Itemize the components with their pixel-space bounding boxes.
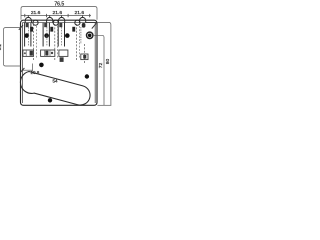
mounting hole donut xyxy=(87,32,93,38)
right extension mid (72) xyxy=(93,35,104,105)
tick right top xyxy=(92,23,96,28)
screw blob 1 xyxy=(30,27,33,32)
screw blob 3 xyxy=(72,27,75,32)
screw shank dark 2 xyxy=(44,23,47,27)
svg-text:80: 80 xyxy=(105,59,111,65)
cylinder 1 xyxy=(24,23,26,47)
mount dot 3 xyxy=(65,33,70,38)
dimension 76.5 line xyxy=(21,7,97,20)
string line pair 2 xyxy=(54,24,56,61)
string line pair 1 xyxy=(33,24,35,61)
inner dashed 1 xyxy=(27,27,29,46)
mount dot 1 xyxy=(25,33,30,38)
cap 2 xyxy=(47,17,53,22)
svg-text:10.8: 10.8 xyxy=(30,70,39,75)
inner dashed 2 xyxy=(46,27,48,46)
cap 1 xyxy=(25,17,31,22)
svg-text:76.5: 76.5 xyxy=(54,2,64,8)
screw head dark 4 xyxy=(82,23,86,28)
left tick top xyxy=(19,25,23,30)
dimension ticks xyxy=(24,14,26,17)
svg-text:21.6: 21.6 xyxy=(53,10,63,16)
foot 1 xyxy=(23,50,34,56)
string hole circle 2 xyxy=(53,20,58,25)
saddle group 4 xyxy=(80,17,89,63)
string line 4 xyxy=(84,44,86,63)
screw shank dark 1 xyxy=(26,23,29,27)
dimension 10.8 line xyxy=(22,69,33,71)
string line pair 3 xyxy=(76,24,78,61)
screw dot mid-left xyxy=(39,63,44,68)
right extension top (80) xyxy=(97,23,111,106)
svg-text:8.2: 8.2 xyxy=(0,43,2,50)
mount dot 2 xyxy=(44,33,49,38)
string hole circle 3 xyxy=(75,20,80,25)
saddle group 1 xyxy=(23,17,34,56)
pickup cutout oval xyxy=(20,72,90,105)
foot 4 xyxy=(81,54,88,60)
plate inner lip line left xyxy=(21,23,23,104)
bridge plate outline xyxy=(21,20,98,105)
screw shank dark 3 xyxy=(59,23,62,27)
cylinder 2 xyxy=(42,23,44,47)
screw blob 2 xyxy=(50,27,53,32)
lip line segment top right xyxy=(86,22,97,24)
tick 10.8 left xyxy=(20,68,24,72)
threaded screw 4 xyxy=(80,27,82,44)
extension 10.8 xyxy=(32,64,34,72)
cap 3 xyxy=(59,17,65,22)
dimension 21.6 line xyxy=(21,15,91,17)
foot 2 xyxy=(41,50,55,56)
saddle group 3 xyxy=(58,17,69,61)
inner dashed 3 xyxy=(61,27,63,46)
screw dot right xyxy=(85,74,89,78)
plate inner lip line right xyxy=(94,23,96,104)
foot 3 xyxy=(59,50,68,56)
svg-text:72: 72 xyxy=(98,63,104,69)
screw dot bottom xyxy=(48,98,52,102)
cylinder 3 xyxy=(57,23,59,47)
bottom extension xyxy=(97,104,111,106)
svg-text:54: 54 xyxy=(52,79,58,84)
cap 4 xyxy=(80,17,86,22)
svg-text:21.6: 21.6 xyxy=(31,10,41,16)
string hole circle 1 xyxy=(33,20,38,25)
cap nubs xyxy=(28,15,82,18)
left bracket dimension xyxy=(4,28,21,66)
plate inner lip line top xyxy=(22,22,95,24)
saddle group 2 xyxy=(41,17,55,56)
